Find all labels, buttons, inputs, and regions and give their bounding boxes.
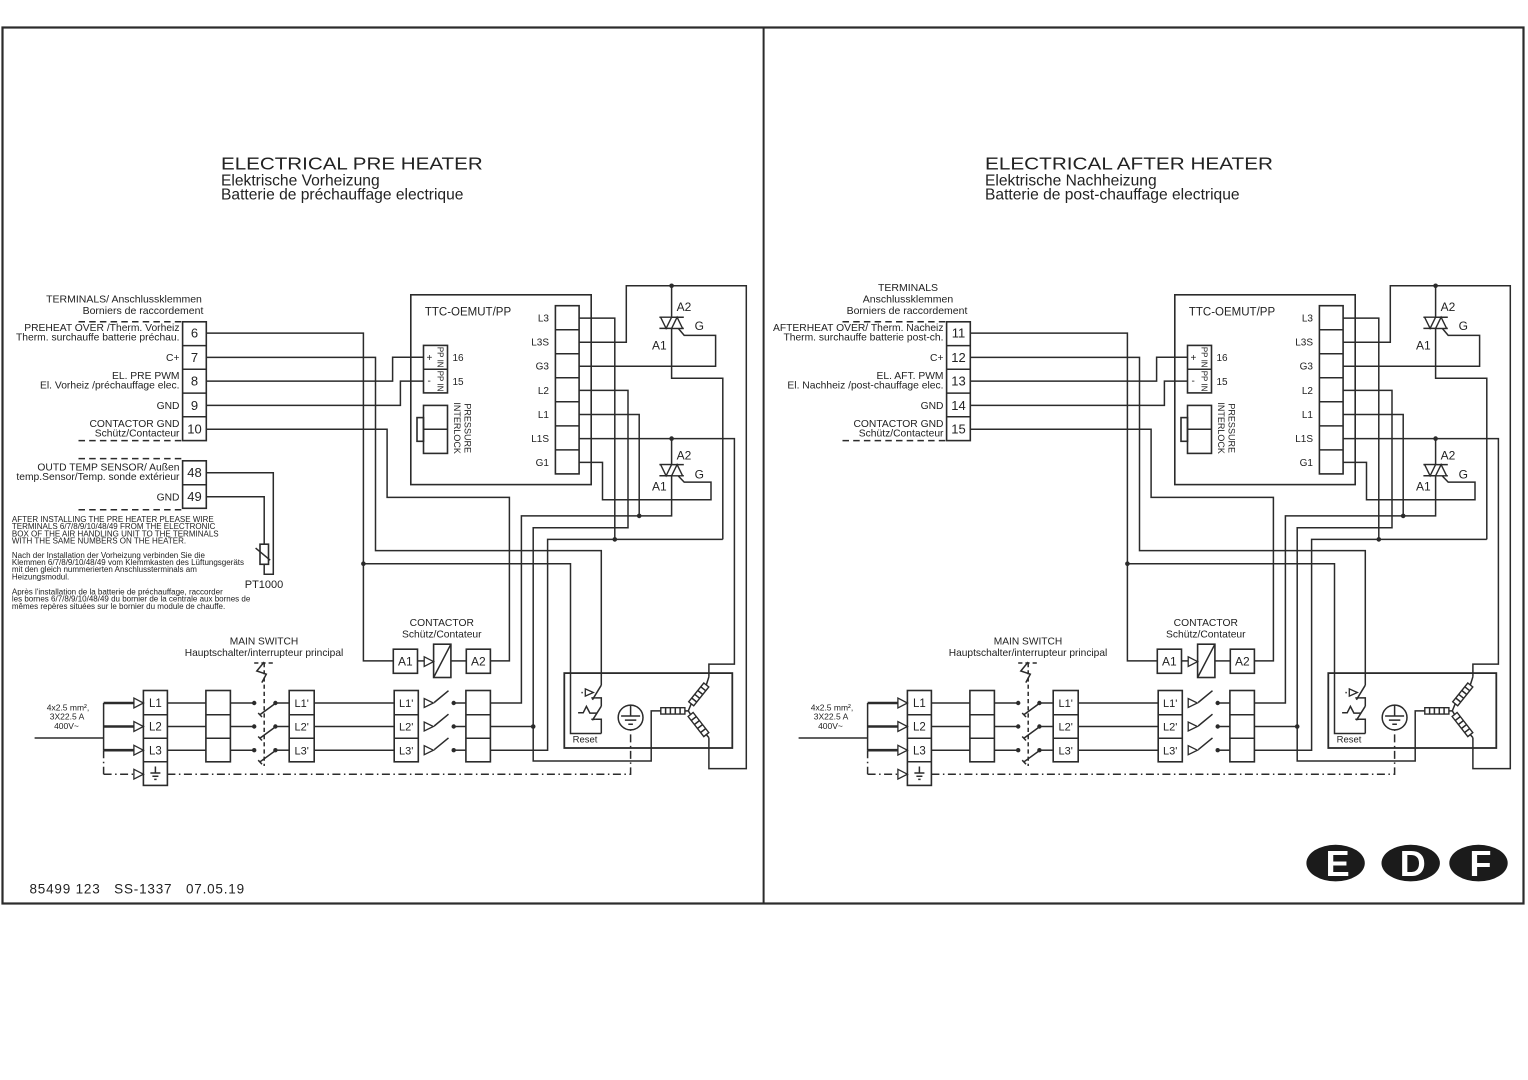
svg-text:49: 49 xyxy=(187,489,201,504)
svg-text:Heizungsmodul.: Heizungsmodul. xyxy=(12,572,69,581)
panel divider xyxy=(763,28,765,904)
svg-text:6: 6 xyxy=(191,326,198,341)
svg-text:D: D xyxy=(1400,843,1426,884)
svg-text:48: 48 xyxy=(187,465,201,480)
svg-text:TERMINALS: TERMINALS xyxy=(878,282,938,294)
wire terminal 49 to PT1000 xyxy=(206,497,264,545)
homologation ovals E D F xyxy=(1306,845,1364,882)
svg-text:Batterie de préchauffage elect: Batterie de préchauffage electrique xyxy=(221,187,463,204)
svg-text:temp.Sensor/Temp. sonde extéri: temp.Sensor/Temp. sonde extérieur xyxy=(16,472,180,483)
svg-text:10: 10 xyxy=(187,422,201,437)
svg-text:Schütz/Contacteur: Schütz/Contacteur xyxy=(859,429,944,440)
svg-text:Anschlussklemmen: Anschlussklemmen xyxy=(863,294,954,306)
svg-text:mêmes repères situées sur le b: mêmes repères situées sur le bornier du … xyxy=(12,602,225,611)
svg-text:GND: GND xyxy=(157,492,180,503)
svg-text:TERMINALS/ Anschlussklemmen: TERMINALS/ Anschlussklemmen xyxy=(46,294,202,306)
svg-text:14: 14 xyxy=(951,398,965,413)
after-heater schematic body xyxy=(799,284,1511,786)
svg-text:Schütz/Contacteur: Schütz/Contacteur xyxy=(95,429,180,440)
svg-text:C+: C+ xyxy=(166,353,179,364)
svg-text:13: 13 xyxy=(951,374,965,389)
svg-text:WITH THE SAME NUMBERS ON THE H: WITH THE SAME NUMBERS ON THE HEATER. xyxy=(12,537,186,546)
svg-text:9: 9 xyxy=(191,398,198,413)
svg-text:Therm. surchauffe batterie pré: Therm. surchauffe batterie préchau. xyxy=(16,333,180,344)
svg-text:85499 123 SS-1337 07.05.19: 85499 123 SS-1337 07.05.19 xyxy=(30,882,245,897)
wire terminal 48 to PT1000 return xyxy=(206,473,273,575)
svg-text:El. Vorheiz /préchauffage elec: El. Vorheiz /préchauffage elec. xyxy=(40,381,179,392)
pre-heater schematic body xyxy=(35,284,747,786)
svg-text:8: 8 xyxy=(191,374,198,389)
svg-text:PT1000: PT1000 xyxy=(245,579,284,591)
terminal strip X20 (11-15) xyxy=(947,322,971,441)
svg-text:Batterie de post-chauffage ele: Batterie de post-chauffage electrique xyxy=(985,187,1240,204)
svg-text:GND: GND xyxy=(921,401,944,412)
svg-text:E: E xyxy=(1326,843,1350,884)
terminal strip X10 (6-10) xyxy=(183,322,207,441)
svg-text:GND: GND xyxy=(157,401,180,412)
svg-text:12: 12 xyxy=(951,350,965,365)
svg-text:ELECTRICAL PRE HEATER: ELECTRICAL PRE HEATER xyxy=(221,153,483,173)
dashed bracket around terminal labels xyxy=(843,322,947,441)
thermistor PT1000 xyxy=(260,544,269,564)
svg-text:El. Nachheiz /post-chauffage e: El. Nachheiz /post-chauffage elec. xyxy=(787,381,943,392)
svg-text:7: 7 xyxy=(191,350,198,365)
terminal strip X11 (48-49) xyxy=(183,461,207,509)
svg-text:15: 15 xyxy=(951,422,965,437)
svg-text:Borniers de raccordement: Borniers de raccordement xyxy=(847,305,968,317)
svg-text:C+: C+ xyxy=(930,353,943,364)
svg-text:Borniers de raccordement: Borniers de raccordement xyxy=(83,305,204,317)
dashed bracket around terminal labels xyxy=(79,322,183,441)
svg-text:Therm. surchauffe batterie pos: Therm. surchauffe batterie post-ch. xyxy=(783,333,943,344)
svg-text:11: 11 xyxy=(952,326,966,341)
svg-text:ELECTRICAL AFTER HEATER: ELECTRICAL AFTER HEATER xyxy=(985,153,1273,173)
svg-text:F: F xyxy=(1470,843,1492,884)
